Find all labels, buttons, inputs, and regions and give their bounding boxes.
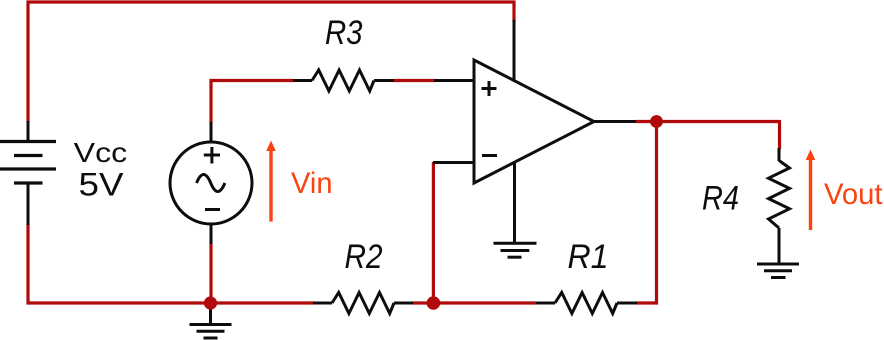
AC source V2 plus sign [204,147,220,164]
op-amp U1 plus symbol [482,81,497,96]
resistor R1 zigzag [555,293,617,314]
junction dot output node [650,115,663,128]
op-amp U1 triangle body [474,60,594,183]
svg-text:Vout: Vout [824,178,883,211]
resistor R2 zigzag [332,293,394,314]
battery V1 Vcc top lead [27,121,30,141]
battery V1 bottom lead [27,183,30,225]
battery V1 plate long [0,167,56,170]
wire R1 right to output node [636,122,657,304]
AC source V2 top lead [210,122,213,142]
svg-text:R3: R3 [325,14,363,52]
svg-text:R2: R2 [345,238,383,276]
junction dot main ground node [204,296,217,309]
ground below R4 [757,264,799,278]
wire left rail bottom from battery to ground rail [28,224,314,303]
resistor R2 right lead [394,302,413,305]
resistor R4 bottom lead [778,228,781,264]
ground below op-amp [494,243,537,257]
svg-text:Vin: Vin [291,167,333,200]
junction dot inverting node [427,296,441,310]
resistor R3 zigzag [312,70,374,91]
resistor R2 left lead [313,302,332,305]
op-amp U1 minus symbol [482,154,497,157]
resistor R4 zigzag [769,161,790,229]
AC source V2 sine symbol [197,175,225,192]
svg-text:Vcc: Vcc [74,137,128,168]
battery V1 plate short bottom [14,181,43,184]
resistor R3 left lead [293,79,312,82]
svg-text:R4: R4 [702,180,739,218]
AC source V2 minus sign [205,208,220,211]
svg-text:5V: 5V [79,167,125,203]
svg-text:R1: R1 [568,238,609,276]
resistor R3 right lead [374,79,394,82]
wire AC source top to R3 [211,81,293,124]
wire bottom rail between R2 and R1 [412,301,536,304]
arrow Vout [806,150,816,231]
resistor R4 top lead [778,148,781,161]
arrow Vin [266,141,276,222]
resistor R1 right lead [617,302,637,305]
op-amp U1 output pin [594,120,636,123]
wire inverting input riser [432,162,435,303]
AC source V2 bottom lead [210,224,213,244]
wire top rail from battery to op-amp power [28,2,514,122]
op-amp U1 minus input pin [433,161,474,164]
wire AC source bottom to ground junction [209,243,212,303]
ground main below junction [190,303,232,338]
battery V1 plate short [14,154,43,157]
resistor R1 left lead [536,302,555,305]
op-amp U1 plus input pin [434,79,474,82]
wire R3 right to op-amp plus pin [393,79,435,82]
op-amp U1 power pin [513,20,516,82]
battery V1 plate long top [0,140,56,143]
wire output node to R4 top [635,122,780,150]
AC source V2 circle [170,142,252,224]
op-amp U1 ground pin [513,161,516,243]
